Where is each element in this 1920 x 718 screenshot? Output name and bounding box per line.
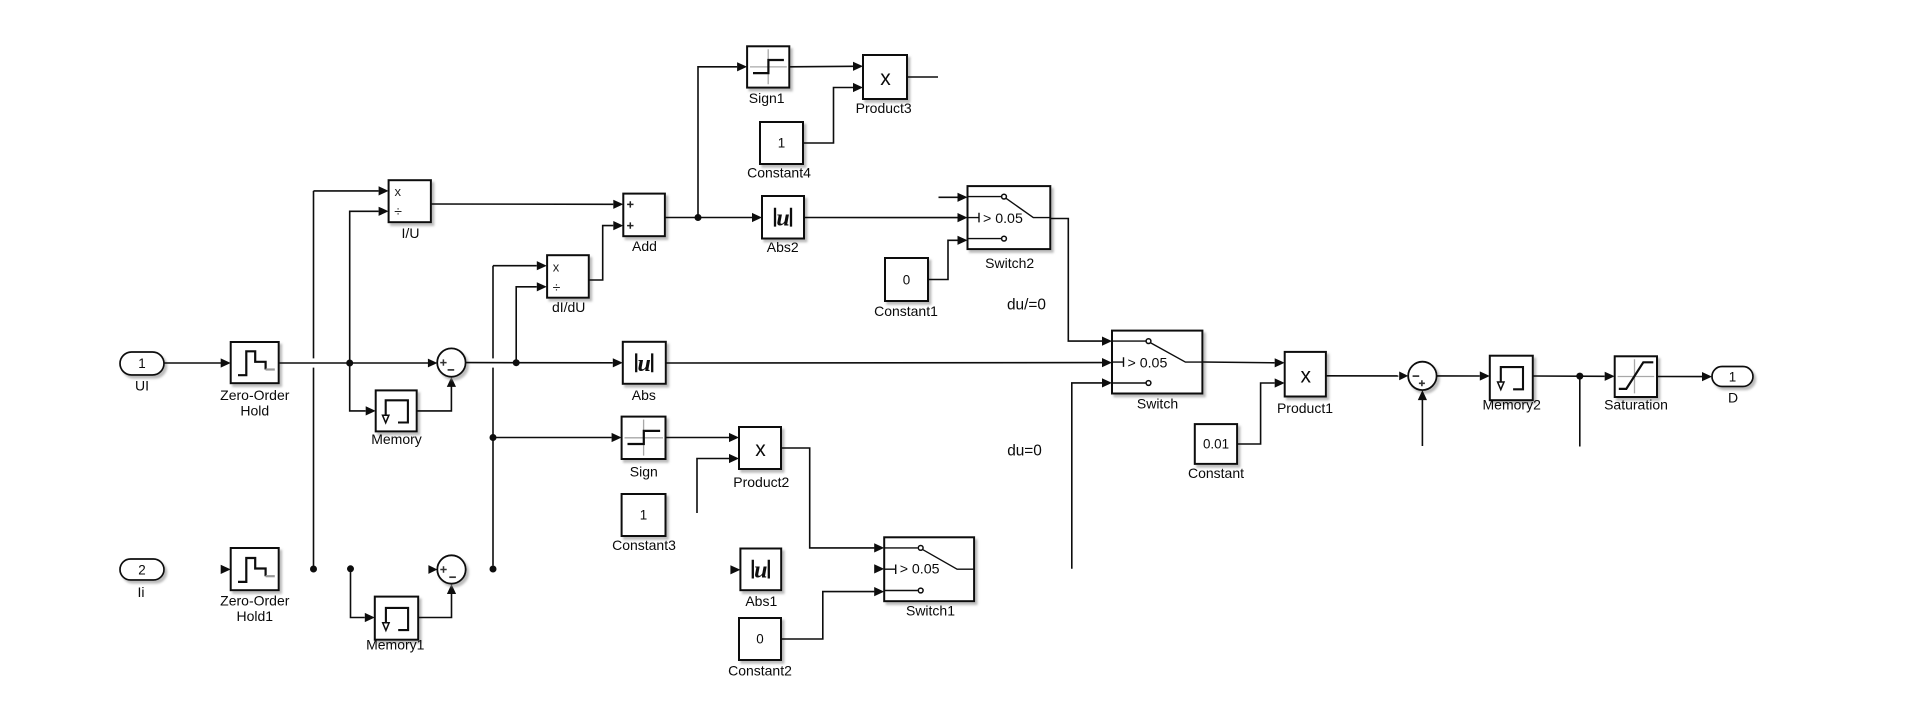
junction node on dU line: [513, 359, 520, 366]
block Saturation: [1604, 356, 1668, 412]
svg-text:Saturation: Saturation: [1604, 397, 1668, 413]
block Memory: [371, 390, 422, 447]
svg-text:0: 0: [903, 272, 910, 287]
svg-text:1: 1: [138, 356, 145, 371]
svg-text:Product2: Product2: [733, 474, 789, 490]
dangling arrow into Sum2: [428, 565, 437, 574]
dangling vertical wire into I/U port 1 with end node: [310, 186, 389, 572]
svg-text:÷: ÷: [553, 279, 561, 295]
block Switch2: [968, 186, 1051, 271]
svg-text:x: x: [755, 438, 766, 461]
block Abs: [623, 342, 666, 403]
block Abs1: [740, 549, 781, 610]
svg-text:Zero-Order: Zero-Order: [220, 593, 290, 609]
svg-text:Hold: Hold: [240, 403, 269, 419]
wire branch up to Sign1: [698, 62, 747, 217]
dangling arrow into Abs1: [730, 565, 740, 574]
wire Sum to Abs: [466, 358, 623, 367]
wire Sign1 to Product3: [789, 62, 863, 71]
wire Abs2 to Switch2 port 2: [804, 213, 968, 222]
wire Add to Abs2: [665, 213, 762, 222]
sum junction Sum2 (I - I_old): [437, 555, 465, 583]
wire Constant4 to Product3 port 2: [803, 83, 863, 143]
block Product2: [733, 427, 789, 490]
wire Saturation to outport D: [1657, 372, 1712, 381]
svg-text:D: D: [1728, 390, 1738, 406]
svg-text:Sign1: Sign1: [749, 90, 785, 106]
sum junction right (D update): [1408, 362, 1436, 390]
block Add: [623, 194, 665, 254]
wire I/U to Add port 1: [431, 200, 623, 209]
block Constant 0.01: [1188, 424, 1244, 481]
svg-text:Abs1: Abs1: [745, 593, 777, 609]
dangling stub into Switch2 port 1: [939, 193, 968, 202]
block Product1: [1277, 352, 1333, 416]
svg-text:÷: ÷: [394, 203, 402, 219]
wire Sign to Product2 port 1: [666, 433, 740, 442]
block Sign: [622, 417, 666, 480]
svg-text:Memory1: Memory1: [366, 637, 425, 653]
dangling arrow into Switch1 port 2: [874, 564, 884, 573]
svg-text:I/U: I/U: [402, 225, 420, 241]
svg-text:1: 1: [640, 508, 647, 523]
svg-text:Abs: Abs: [632, 387, 656, 403]
block Switch: [1112, 331, 1202, 412]
block Constant3: [612, 494, 676, 553]
inport 1 UI: [120, 352, 164, 394]
svg-text:Constant1: Constant1: [874, 303, 938, 319]
svg-text:Ii: Ii: [138, 584, 145, 600]
svg-text:Switch2: Switch2: [985, 255, 1034, 271]
svg-text:Sign: Sign: [630, 464, 658, 480]
wire U branch down to Memory: [350, 363, 376, 416]
svg-text:Product1: Product1: [1277, 400, 1333, 416]
wire Constant1 to Switch2 port 3: [928, 236, 968, 280]
svg-text:x: x: [1300, 364, 1311, 387]
junction node on U line: [346, 360, 353, 367]
block Zero-Order Hold: [220, 342, 290, 419]
annotation du/=0: [1007, 297, 1046, 314]
dangling vertical wire into dI/dU port 1 with branch to Sign: [490, 261, 547, 572]
svg-text:Abs2: Abs2: [767, 239, 799, 255]
block Product3: [856, 55, 912, 116]
junction node after Add: [695, 214, 702, 221]
block Abs2: [762, 196, 804, 255]
wire Abs to Switch port 2: [666, 358, 1112, 367]
dangling vertical wire into Switch port 3: [1072, 378, 1112, 568]
svg-text:Constant: Constant: [1188, 465, 1244, 481]
wire Memory to Sum bottom: [417, 377, 456, 411]
junction node with wire down to Memory1: [347, 565, 375, 622]
svg-text:u: u: [754, 557, 767, 583]
svg-text:> 0.05: > 0.05: [1128, 356, 1168, 372]
svg-text:Switch: Switch: [1137, 396, 1178, 412]
dangling vertical wire down from Memory2 output: [1579, 376, 1581, 446]
svg-text:u: u: [638, 351, 651, 377]
wire Memory1 to Sum2 bottom: [418, 584, 456, 618]
block Sign1: [747, 46, 789, 106]
svg-text:Hold1: Hold1: [237, 608, 274, 624]
svg-text:du/=0: du/=0: [1007, 297, 1046, 314]
svg-text:x: x: [553, 259, 560, 274]
block dI/dU divide: [547, 255, 589, 315]
block Switch1: [884, 537, 974, 618]
svg-text:Add: Add: [632, 238, 657, 254]
svg-text:> 0.05: > 0.05: [983, 211, 1023, 227]
wire Switch2 to Switch port 1: [1050, 219, 1112, 346]
wire dI/dU to Add port 2: [589, 221, 624, 280]
wire Switch to Product1 port 1: [1202, 358, 1284, 367]
block Constant2: [728, 618, 792, 679]
wire U branch up to I/U divide port 2: [350, 207, 389, 363]
block Constant1: [874, 258, 938, 319]
svg-text:x: x: [395, 184, 402, 199]
outport 1 D: [1712, 367, 1753, 406]
annotation du=0: [1007, 442, 1042, 459]
svg-text:Constant3: Constant3: [612, 537, 676, 553]
svg-text:Constant2: Constant2: [728, 663, 792, 679]
sum junction Sum (U - U_old): [437, 348, 465, 376]
wire dU branch up to dI/dU port 2: [516, 282, 547, 363]
svg-text:> 0.05: > 0.05: [900, 562, 940, 578]
svg-text:Switch1: Switch1: [906, 603, 955, 619]
dangling wire into Product2 port 2: [697, 454, 739, 513]
svg-text:x: x: [880, 67, 891, 90]
block Memory2: [1483, 356, 1542, 413]
svg-text:Constant4: Constant4: [747, 165, 811, 181]
svg-text:0.01: 0.01: [1203, 437, 1229, 452]
svg-text:du=0: du=0: [1007, 442, 1042, 459]
inport 2 Ii: [120, 559, 164, 600]
wire Memory2 to Saturation: [1533, 372, 1615, 381]
svg-text:u: u: [776, 206, 789, 232]
svg-text:Memory: Memory: [371, 431, 422, 447]
svg-text:Memory2: Memory2: [1483, 397, 1542, 413]
svg-text:Product3: Product3: [856, 100, 912, 116]
svg-text:Zero-Order: Zero-Order: [220, 387, 290, 403]
wire Product1 to Sum1 circle: [1326, 372, 1408, 381]
junction node to Sign: [490, 434, 497, 441]
wire sum to Memory2: [1437, 371, 1490, 380]
block Memory1: [366, 597, 425, 653]
wire Product2 to Switch1 port 1: [781, 448, 884, 553]
svg-text:2: 2: [138, 563, 145, 578]
dangling vertical wire into sum bottom: [1418, 390, 1427, 446]
svg-text:1: 1: [1729, 369, 1736, 384]
dangling arrow into Zero-Order Hold1: [221, 565, 231, 574]
svg-text:0: 0: [756, 632, 763, 647]
svg-text:dI/dU: dI/dU: [552, 299, 585, 315]
block Constant4: [747, 122, 811, 181]
block I/U divide: [389, 180, 431, 241]
wire Constant2 to Switch1 port 3: [781, 587, 884, 639]
svg-text:UI: UI: [135, 378, 149, 394]
wire to Sign input: [493, 433, 622, 442]
junction node after Memory2: [1576, 373, 1583, 380]
wire UI to Zero-Order Hold: [164, 358, 231, 367]
wire Zero-Order Hold to Sum: [279, 359, 438, 368]
dangling wire from Product3 output: [907, 76, 938, 78]
block Zero-Order Hold1: [220, 548, 290, 624]
svg-text:1: 1: [778, 136, 785, 151]
wire Constant to Product1 port 2: [1237, 378, 1285, 444]
